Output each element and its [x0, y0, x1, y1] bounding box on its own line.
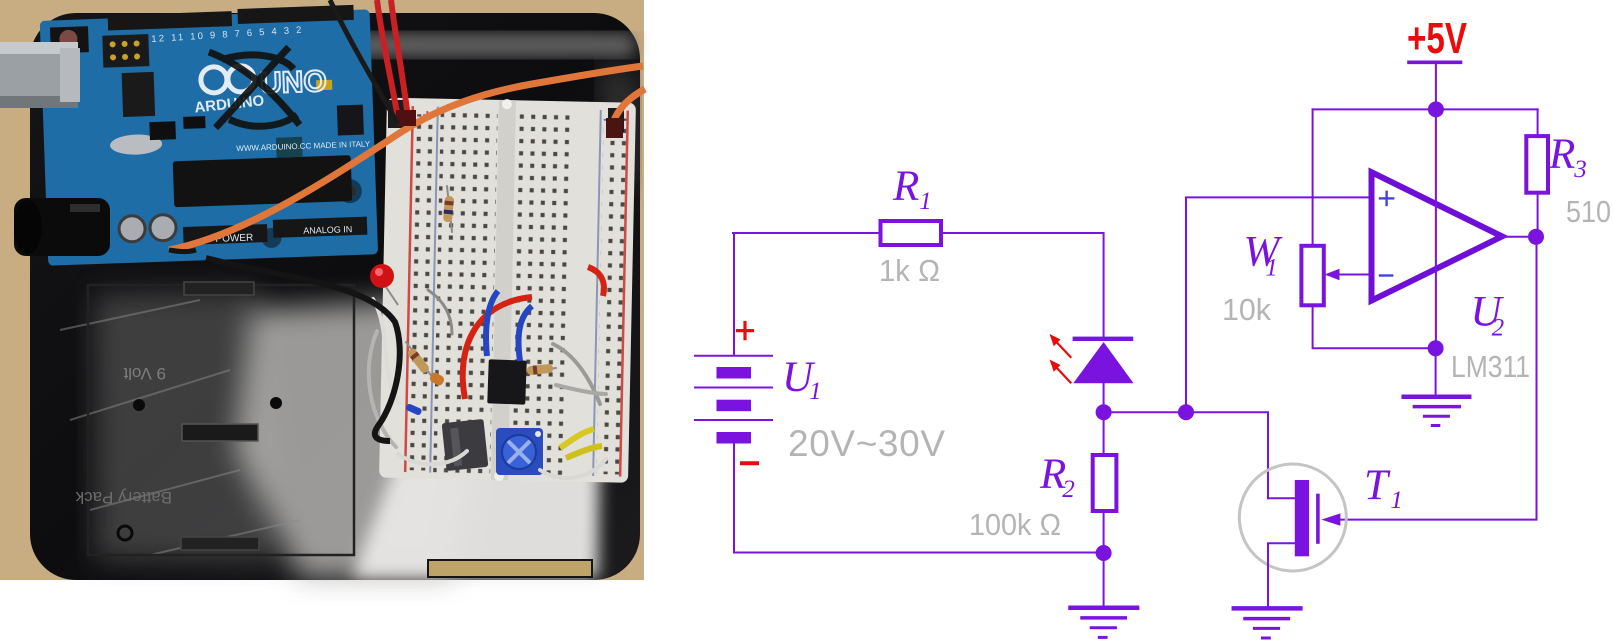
op-amp - input mark	[1380, 274, 1392, 276]
node A junction dot	[1096, 404, 1112, 420]
T1 gate arrowhead	[1321, 513, 1340, 525]
hole banks	[433, 111, 498, 474]
wire: inverting input to W1 wiper	[1338, 274, 1371, 276]
svg-text:R2: R2	[1039, 451, 1075, 503]
yellow wires	[560, 429, 594, 448]
breadboard clips	[388, 100, 404, 128]
node D junction dot on +5V rail	[1428, 101, 1444, 117]
wire: op-amp output	[1502, 236, 1536, 238]
ground GND3 below T1	[1234, 608, 1301, 638]
battery U1 plate long 2	[695, 387, 772, 389]
wire: T1 drain lead	[1268, 497, 1295, 499]
op-amp U2 triangle	[1372, 172, 1503, 300]
components on breadboard	[369, 186, 606, 478]
+5V supply bar	[1409, 60, 1461, 64]
node E junction dot op-amp ground pin	[1428, 340, 1444, 356]
battery imprint rectangle on tray	[88, 285, 354, 555]
wire: R3 to output node F	[1537, 193, 1539, 237]
wire: rail corner down to R3	[1537, 109, 1539, 136]
Arduino Uno board	[40, 4, 379, 265]
wire: LED anode to node A	[1103, 383, 1105, 412]
ground GND1 below R2	[1071, 608, 1138, 638]
red jumpers	[463, 297, 532, 399]
ground GND2 below op-amp	[1404, 397, 1470, 426]
wire: top rail to W1 top	[1312, 109, 1314, 245]
wire: T1 source lead down to ground	[1268, 543, 1295, 607]
battery U1 thick bar 1	[717, 367, 752, 379]
LED D1 cathode bar	[1073, 337, 1134, 341]
wire: +5V bar to rail	[1435, 64, 1437, 110]
blue potentiometer	[496, 428, 543, 475]
svg-text:20V~30V: 20V~30V	[788, 423, 945, 464]
node F output junction dot	[1528, 229, 1544, 245]
svg-text:100k Ω: 100k Ω	[969, 507, 1061, 542]
wire: op-amp power line down to ground node	[1435, 109, 1437, 348]
usb connector	[0, 42, 78, 108]
svg-text:ANALOG IN: ANALOG IN	[303, 224, 352, 236]
tray glare highlights	[60, 33, 638, 578]
battery - polarity mark	[742, 461, 757, 465]
white / gray jumpers	[369, 290, 606, 478]
battery U1 plate long 1	[695, 355, 772, 357]
svg-text:W1: W1	[1244, 229, 1284, 282]
rails lines	[405, 106, 413, 472]
wire: node F down and left to T1 gate	[1339, 237, 1537, 520]
wire: node C down to ground	[1103, 553, 1105, 607]
black 8pin IC	[487, 359, 527, 404]
svg-text:9 Volt: 9 Volt	[123, 364, 166, 383]
transistor T1 channel bar	[1295, 480, 1309, 556]
node C junction dot	[1096, 545, 1112, 561]
crossing wires	[169, 0, 645, 441]
potentiometer W1 body	[1301, 246, 1323, 305]
power jack	[14, 198, 110, 256]
wire: node A down to R2	[1103, 412, 1105, 455]
blue jumpers	[486, 291, 498, 356]
wire: node E down to ground	[1435, 348, 1437, 396]
node B junction dot	[1178, 404, 1194, 420]
LED light arrow 2	[1050, 360, 1071, 383]
svg-text:U2: U2	[1471, 289, 1505, 342]
white silkscreen	[194, 89, 375, 246]
wire: node A to node B to T1 drain corner	[1104, 412, 1268, 498]
red LED photo	[370, 264, 394, 288]
resistors	[406, 186, 556, 387]
svg-text:LM311: LM311	[1451, 349, 1530, 384]
resistor R2	[1093, 455, 1117, 511]
battery U1 plate long 3	[695, 419, 772, 421]
LED D1 triangle	[1073, 342, 1133, 383]
long dark IC bottom-left	[442, 419, 489, 471]
black tray	[30, 13, 640, 580]
svg-text:T1: T1	[1364, 462, 1403, 514]
W1 wiper arrowhead	[1325, 269, 1340, 281]
svg-text:510: 510	[1566, 194, 1611, 229]
wire: top rail from left corner to R1	[733, 232, 881, 234]
wire: R2 to node C	[1103, 511, 1105, 553]
wire: +5V top rail	[1313, 108, 1538, 110]
svg-text:+5V: +5V	[1407, 14, 1467, 63]
wire: W1 bottom to op-amp ground node	[1313, 305, 1436, 348]
svg-text:R3: R3	[1548, 131, 1587, 183]
wire: top-left vertical from R1 rail down to battery +	[733, 233, 735, 355]
svg-text:Battery Pack: Battery Pack	[75, 488, 172, 507]
infinity logo	[200, 65, 254, 93]
wire: R1 to LED top corner	[941, 233, 1104, 337]
battery U1 thick bar 3	[717, 432, 752, 444]
transistor T1 gate plate	[1316, 496, 1320, 543]
wire: bottom rail battery - to node C	[734, 443, 1104, 553]
op-amp + input mark	[1380, 192, 1393, 205]
marker scribble	[209, 47, 300, 128]
resistor R1	[881, 221, 942, 245]
svg-text:10k: 10k	[1222, 292, 1271, 327]
svg-text:R1: R1	[892, 163, 932, 215]
svg-text:U1: U1	[782, 354, 822, 405]
battery + polarity mark	[738, 323, 753, 339]
svg-text:1k Ω: 1k Ω	[879, 253, 940, 288]
desk background	[0, 0, 644, 580]
LED light arrow 1	[1050, 334, 1071, 357]
breadboard	[379, 97, 636, 484]
transistor T1 body circle	[1239, 464, 1346, 571]
battery U1 thick bar 2	[717, 400, 752, 412]
wire: node B up and right to op-amp + input	[1186, 197, 1371, 412]
resistor R3	[1526, 136, 1548, 193]
